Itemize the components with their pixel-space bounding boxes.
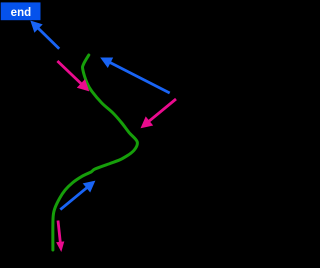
svg-text:end: end xyxy=(11,7,31,19)
